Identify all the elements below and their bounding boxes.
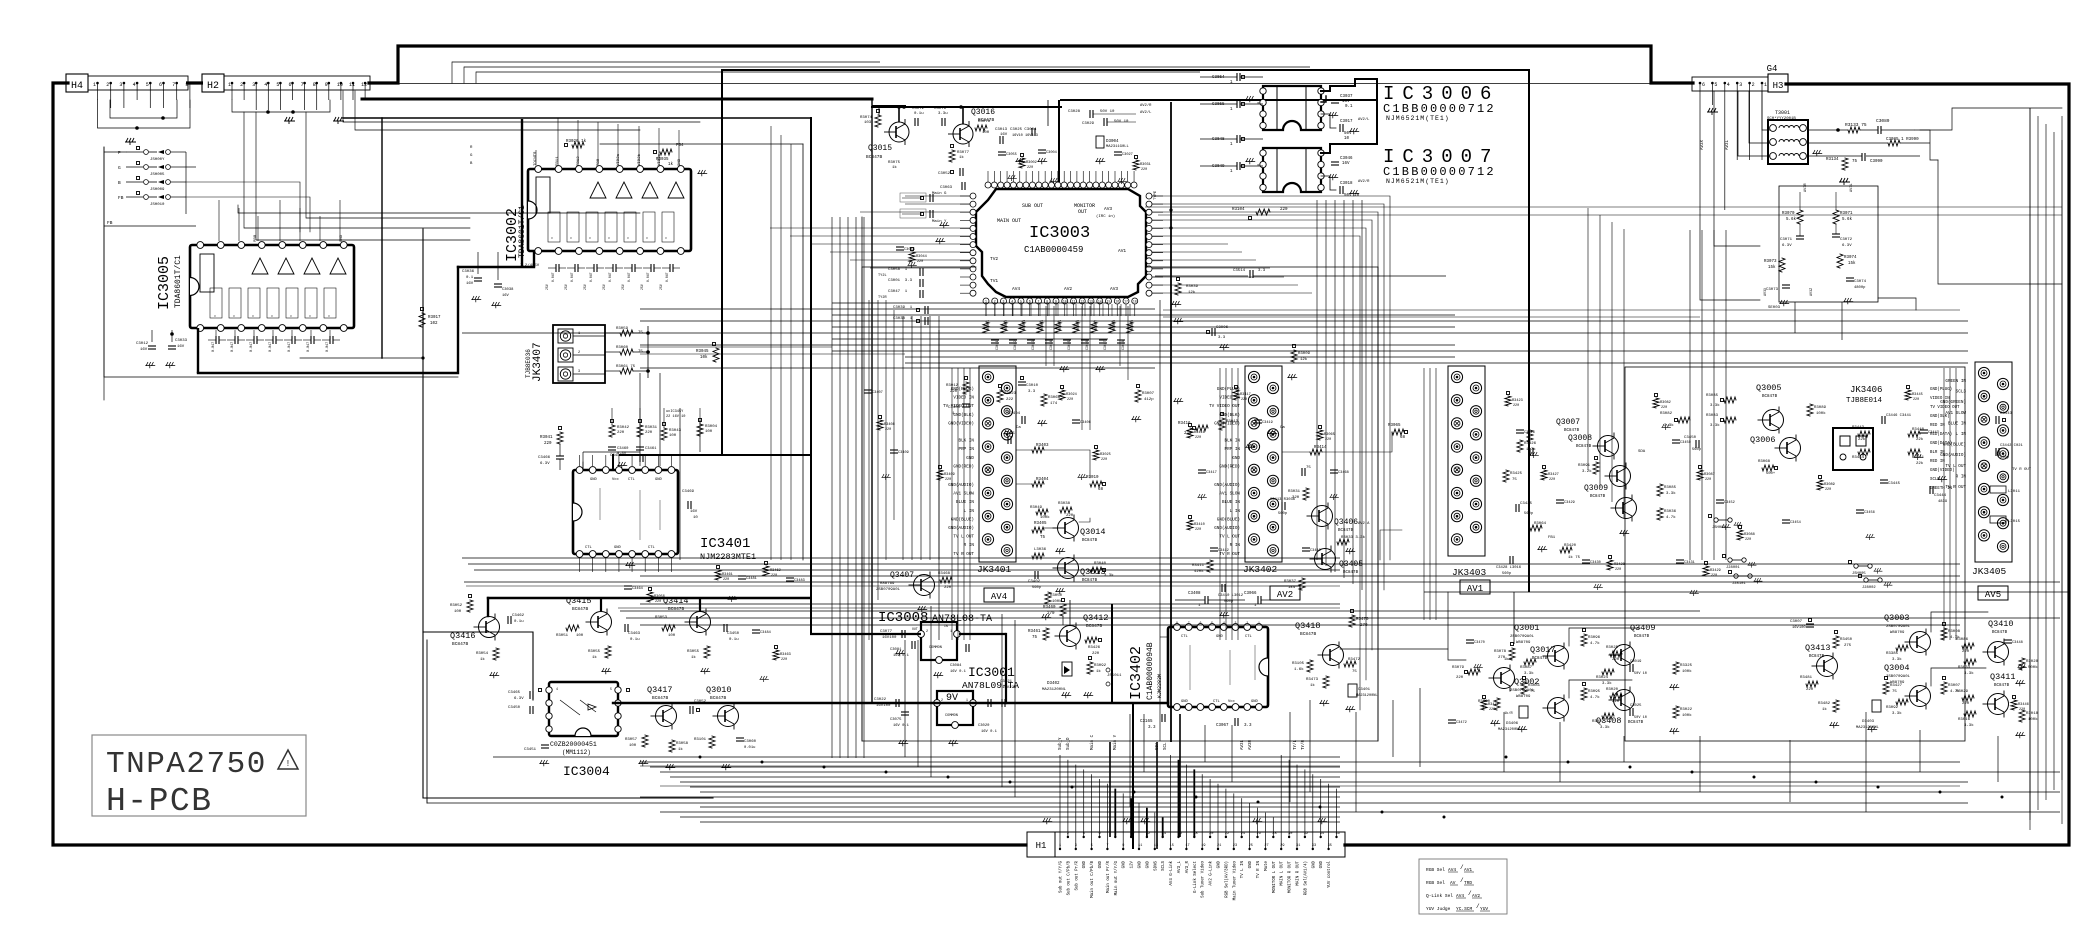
svg-text:R3429: R3429 (1710, 569, 1721, 573)
svg-text:R3089: R3089 (1824, 483, 1835, 487)
capacitor C3408 (1204, 596, 1206, 604)
svg-text:AV3_L: AV3_L (1178, 860, 1182, 873)
connector H3 (1692, 77, 1768, 91)
resistor R3071 (1833, 210, 1839, 224)
svg-text:R3133 75: R3133 75 (1845, 122, 1867, 128)
ground (881, 474, 890, 480)
wire (700, 806, 1340, 808)
svg-text:220: 220 (1092, 652, 1100, 656)
svg-text:Q3004: Q3004 (1884, 663, 1910, 673)
wire (1429, 368, 1431, 620)
wire (1931, 668, 1986, 686)
svg-text:Q3014: Q3014 (1080, 527, 1106, 537)
ground (1593, 584, 1602, 590)
svg-text:C3472: C3472 (1456, 721, 1467, 725)
svg-text:6: 6 (159, 82, 162, 88)
wire (474, 569, 1340, 571)
resistor R3065 (1392, 429, 1404, 435)
wire (1424, 591, 2069, 593)
capacitor C3081 (911, 641, 913, 649)
svg-text:C3469: C3469 (682, 490, 695, 494)
resistor R3035b (1657, 484, 1663, 496)
wire (1152, 276, 1284, 278)
svg-text:3.3: 3.3 (1148, 726, 1156, 730)
resistor R3082 (1678, 417, 1690, 423)
resistor (1133, 160, 1139, 170)
svg-text:R3025: R3025 (1606, 646, 1619, 650)
svg-text:G4: G4 (1767, 64, 1778, 74)
capacitor (1782, 519, 1790, 521)
wire (850, 259, 970, 261)
svg-text:C3408: C3408 (1188, 592, 1201, 596)
svg-text:4800p: 4800p (1854, 286, 1866, 290)
svg-text:BC847B: BC847B (1564, 429, 1580, 433)
resistor R3414 (1310, 449, 1322, 455)
resistor R3028 (2019, 658, 2025, 670)
transistor Q3410 (1988, 642, 2009, 663)
capacitor (1856, 509, 1864, 511)
wire (678, 130, 680, 165)
svg-text:R3417: R3417 (1240, 393, 1251, 397)
resistor R3990 (1888, 140, 1900, 146)
ground (1319, 700, 1329, 706)
svg-text:12k: 12k (1300, 357, 1308, 362)
svg-text:R3019: R3019 (1131, 320, 1135, 330)
svg-text:1: 1 (93, 82, 96, 88)
wire (462, 332, 1968, 334)
switch J28101 (1734, 574, 1738, 578)
wire (1528, 70, 1530, 592)
svg-text:R3078: R3078 (1494, 650, 1507, 654)
ground (935, 238, 945, 244)
svg-text:GND(SLK): GND(SLK) (1930, 414, 1950, 419)
svg-text:1k: 1k (668, 162, 674, 167)
svg-text:COMMON: COMMON (945, 714, 958, 718)
svg-text:220: 220 (1549, 478, 1555, 482)
wire (1343, 200, 1345, 578)
capacitor C3074 (1846, 277, 1854, 279)
wire (1127, 306, 1129, 380)
capacitor (612, 264, 614, 272)
svg-text:R3070: R3070 (1782, 212, 1795, 216)
capacitor (1582, 559, 1590, 561)
resistor (877, 420, 883, 430)
svg-text:TY2L: TY2L (878, 274, 887, 278)
svg-text:C3452: C3452 (1724, 501, 1735, 505)
ground (1095, 158, 1105, 164)
svg-text:TY2R: TY2R (878, 296, 887, 300)
svg-text:R3049: R3049 (1030, 506, 1043, 510)
resistor R3080 (1494, 698, 1500, 710)
svg-text:100: 100 (454, 610, 462, 614)
svg-text:R3445: R3445 (1912, 393, 1923, 397)
svg-text:JS5011: JS5011 (1107, 674, 1122, 678)
svg-text:GND: GND (1312, 860, 1316, 868)
svg-text:17: 17 (1124, 300, 1128, 304)
ground (1839, 178, 1850, 185)
svg-text:1.7k: 1.7k (1526, 447, 1536, 452)
capacitor (1072, 419, 1080, 421)
wire (1163, 309, 1960, 311)
svg-text:C3462: C3462 (512, 614, 525, 618)
wire (893, 310, 895, 520)
wire (1044, 450, 1090, 478)
wire (1225, 368, 1227, 640)
wire (1448, 592, 1466, 660)
resistor R3086c (1962, 643, 1974, 649)
ground (1055, 548, 1065, 554)
svg-text:Sub_D: Sub_D (1066, 737, 1071, 750)
resistor R3057 (642, 735, 648, 747)
svg-text:GND(RED): GND(RED) (953, 464, 974, 469)
svg-text:C1AB0000459: C1AB0000459 (1024, 245, 1083, 255)
svg-text:R3025: R3025 (1100, 453, 1111, 457)
svg-text:GND(DATA): GND(DATA) (1930, 441, 1952, 446)
capacitor C3450b (529, 706, 531, 714)
wire (493, 756, 1340, 758)
svg-text:16V100: 16V100 (1792, 626, 1806, 630)
svg-text:AV4: AV4 (991, 592, 1007, 602)
wire (582, 462, 584, 470)
capacitor C3066 (1257, 596, 1259, 604)
svg-text:1k: 1k (959, 155, 964, 160)
svg-text:W88709: W88709 (1890, 681, 1905, 685)
svg-text:AV1: AV1 (1467, 584, 1483, 594)
svg-text:4: 4 (1223, 621, 1225, 625)
svg-text:C1BB00000712: C1BB00000712 (1383, 102, 1496, 116)
capacitor C3037 (1331, 99, 1339, 101)
svg-text:AV3: AV3 (1110, 286, 1118, 292)
svg-text:C3409: C3409 (898, 451, 909, 455)
ground (1140, 818, 1150, 824)
wire (902, 197, 922, 199)
svg-text:JK3405: JK3405 (1972, 566, 2007, 577)
svg-text:JSH004: JSH004 (1712, 526, 1726, 530)
wire (721, 70, 723, 455)
wire (917, 640, 919, 767)
wire (1170, 755, 1172, 849)
svg-text:R3058: R3058 (676, 742, 689, 746)
resistor (909, 252, 915, 262)
svg-text:T3001: T3001 (1775, 110, 1790, 116)
wire (810, 118, 812, 634)
svg-text:V: V (627, 237, 630, 239)
svg-text:V: V (309, 315, 312, 317)
svg-text:!: ! (285, 759, 290, 769)
wire (660, 811, 2060, 813)
resistor R3024b (1602, 713, 1614, 719)
svg-text:R3427: R3427 (1548, 473, 1559, 477)
wire (97, 83, 99, 100)
svg-text:C3466: C3466 (538, 456, 551, 460)
wire (770, 227, 970, 229)
svg-text:D3004: D3004 (1106, 140, 1119, 144)
wire (700, 791, 2060, 793)
svg-text:BC847B: BC847B (1338, 529, 1354, 533)
wire (1799, 192, 1801, 210)
svg-text:100: 100 (629, 744, 637, 748)
resistor R3074b (1837, 254, 1843, 268)
wire (1569, 680, 1632, 698)
svg-text:R3463: R3463 (780, 653, 791, 657)
svg-text:C3054: C3054 (1212, 76, 1225, 80)
wire (475, 72, 477, 83)
capacitor C3405 (962, 403, 970, 405)
wire (381, 118, 383, 358)
svg-text:GND: GND (1139, 860, 1143, 868)
wire (198, 267, 458, 373)
svg-text:C3444: C3444 (1934, 494, 1947, 498)
resistor R3406 (1032, 553, 1044, 559)
svg-text:25V: 25V (545, 284, 549, 290)
svg-text:3: 3 (1739, 82, 1742, 88)
resistor R3055a (605, 646, 611, 658)
wire (969, 368, 971, 640)
svg-text:BC847B: BC847B (1762, 395, 1778, 399)
svg-text:JK3406: JK3406 (1850, 385, 1882, 395)
svg-text:Q3006: Q3006 (1750, 435, 1776, 445)
svg-text:75: 75 (1852, 160, 1858, 164)
capacitor C3049 (1236, 162, 1238, 170)
resistor R3095b (1581, 688, 1587, 700)
svg-text:IN: IN (944, 624, 948, 628)
wire (53, 83, 1026, 845)
svg-text:23: 23 (1233, 844, 1237, 848)
ground (1055, 588, 1065, 594)
transistor Q3017 (1494, 668, 1515, 689)
svg-text:C3076: C3076 (934, 107, 947, 111)
svg-text:R3086: R3086 (1956, 638, 1969, 642)
resistor R3085 (1724, 397, 1736, 403)
resistor R3095a (1581, 634, 1587, 646)
svg-text:TV L OUT: TV L OUT (1219, 535, 1240, 540)
transistor Q3013 (1058, 558, 1079, 579)
svg-text:R3056: R3056 (654, 595, 665, 599)
ground (1345, 548, 1355, 554)
resistor R3078 (975, 125, 987, 131)
resistor (647, 592, 653, 602)
wire (957, 368, 959, 640)
resistor R3049 (1036, 509, 1048, 515)
wire (1304, 769, 1306, 837)
wire (197, 328, 199, 373)
wire (902, 316, 904, 560)
transistor Q3406 (1312, 506, 1333, 527)
wire (658, 128, 660, 165)
svg-text:R3104: R3104 (1232, 208, 1245, 212)
svg-text:560p: 560p (1692, 448, 1702, 452)
resistor R3427 (1883, 682, 1889, 694)
ground (165, 362, 175, 368)
svg-text:6: 6 (1199, 621, 1201, 625)
svg-text:GND: GND (966, 456, 974, 461)
wire (343, 117, 811, 119)
wire (1122, 793, 1124, 849)
op-amp IC3002 (528, 169, 691, 251)
wire (904, 640, 906, 757)
svg-text:C3027: C3027 (1122, 153, 1133, 157)
svg-text:BC847B: BC847B (572, 606, 589, 612)
capacitor C3063 (961, 182, 963, 190)
wire (1102, 304, 1104, 316)
ground (1287, 374, 1297, 380)
svg-text:C3407: C3407 (872, 391, 883, 395)
svg-text:RGB Sel(AV/3RD): RGB Sel(AV/3RD) (1224, 861, 1229, 898)
transistor Q3408 (1614, 690, 1635, 711)
svg-text:BC847B: BC847B (866, 154, 883, 160)
svg-text:TV R IN: TV R IN (1257, 860, 1261, 878)
svg-text:Sub out C/Pb/B: Sub out C/Pb/B (1066, 860, 1071, 895)
capacitor (1672, 439, 1680, 441)
wire (1623, 736, 1625, 762)
svg-text:11: 11 (1138, 844, 1142, 848)
wire (1081, 306, 1083, 430)
capacitor (998, 151, 1006, 153)
svg-text:6.3V: 6.3V (1842, 244, 1852, 248)
svg-text:11: 11 (349, 82, 355, 88)
svg-text:0.047: 0.047 (326, 342, 330, 352)
svg-text:C0ZB20000451: C0ZB20000451 (550, 741, 597, 748)
svg-text:B: B (118, 180, 121, 186)
svg-text:R3105: R3105 (1292, 662, 1305, 666)
resistor R3385b (1896, 699, 1908, 705)
svg-text:AV2/R: AV2/R (1140, 103, 1152, 108)
svg-text:0.047: 0.047 (627, 272, 631, 282)
wire (2061, 140, 2063, 780)
svg-text:R3020: R3020 (1606, 688, 1619, 692)
wire (1152, 243, 1228, 245)
svg-text:220: 220 (1195, 436, 1201, 440)
svg-text:CTL: CTL (585, 546, 593, 550)
resistor R3038 (1060, 507, 1072, 513)
svg-text:TV2: TV2 (990, 256, 998, 262)
resistor R3468 (940, 577, 952, 583)
capacitor C3067 (1234, 718, 1236, 726)
svg-text:34: 34 (1320, 832, 1324, 836)
wire (1003, 304, 1005, 316)
svg-text:32: 32 (1304, 832, 1308, 836)
wire (640, 575, 1960, 577)
wire (963, 368, 965, 640)
wire (1392, 700, 1394, 757)
svg-text:R3409: R3409 (944, 473, 955, 477)
wire (1841, 302, 1843, 340)
svg-text:8: 8 (1176, 621, 1178, 625)
svg-text:0.047: 0.047 (646, 272, 650, 282)
svg-text:220: 220 (885, 428, 891, 432)
resistor (1001, 322, 1007, 333)
wire (862, 267, 1378, 741)
wire (638, 126, 640, 165)
ground (1884, 582, 1893, 588)
svg-text:IC3003: IC3003 (1029, 224, 1090, 243)
svg-text:16V: 16V (466, 282, 474, 286)
resistor (1073, 322, 1079, 333)
svg-text:IC3004: IC3004 (563, 764, 610, 779)
svg-text:C3063: C3063 (940, 186, 953, 190)
wire (877, 300, 879, 600)
resistor R3035 (660, 149, 672, 155)
svg-text:C3033: C3033 (175, 339, 188, 343)
svg-text:BC847B: BC847B (1343, 571, 1359, 575)
wire (620, 610, 1700, 612)
transistor Q3008 (1610, 466, 1631, 487)
wire (790, 235, 970, 237)
ground (601, 668, 611, 674)
svg-text:3-3k: 3-3k (1602, 681, 1612, 686)
wire (832, 302, 1108, 304)
connector H2 (202, 74, 224, 92)
svg-text:PBO: PBO (597, 158, 601, 166)
svg-text:AV2/R: AV2/R (1358, 179, 1370, 184)
capacitor C3465 (529, 691, 531, 699)
wire (597, 122, 599, 165)
svg-text:BLR IN: BLR IN (1930, 451, 1945, 455)
svg-text:R3042: R3042 (617, 426, 630, 430)
resistor (1607, 560, 1613, 570)
wire (1749, 91, 1770, 143)
wire (639, 373, 641, 466)
wire (1084, 304, 1086, 316)
svg-text:AV3_R: AV3_R (1186, 860, 1190, 873)
wire (618, 607, 1340, 609)
resistor R3461 (1043, 628, 1049, 640)
svg-text:R3092: R3092 (1886, 706, 1899, 710)
wire (339, 200, 341, 241)
switch JSH004 (1714, 518, 1718, 522)
wire (860, 211, 970, 213)
node AV5 (1978, 586, 2008, 600)
resistor (1541, 470, 1547, 480)
svg-text:R3029: R3029 (1956, 690, 1969, 694)
resistor R3492 (1087, 662, 1093, 674)
wire (355, 91, 640, 130)
svg-text:R3012: R3012 (1005, 320, 1009, 330)
svg-text:D3406: D3406 (1506, 722, 1519, 726)
ground (1721, 524, 1730, 530)
capacitor C3451 (541, 744, 549, 746)
svg-text:Q3009: Q3009 (1584, 484, 1608, 493)
wire (1915, 130, 1938, 160)
wire (1130, 798, 1132, 837)
wire (559, 444, 561, 456)
wire (659, 373, 661, 466)
svg-text:R3404: R3404 (1036, 478, 1049, 482)
diode D3004 (1096, 136, 1104, 148)
transistor Q3003 (1910, 632, 1931, 653)
resistor R3472 (1344, 661, 1356, 667)
resistor R3133 (1848, 127, 1860, 133)
svg-text:P: P (118, 150, 121, 156)
svg-text:28: 28 (1272, 832, 1276, 836)
svg-text:16V: 16V (690, 510, 698, 514)
svg-text:R IN: R IN (1230, 543, 1241, 548)
wire (1919, 730, 1921, 772)
svg-text:TV1: TV1 (990, 278, 998, 284)
wire (398, 83, 1651, 85)
wire (329, 330, 331, 336)
resistor (1127, 322, 1133, 333)
svg-text:H1: H1 (1036, 841, 1047, 851)
svg-text:AV2: AV2 (1277, 590, 1293, 600)
svg-text:C3028: C3028 (1068, 110, 1081, 114)
resistor R3068b (1041, 394, 1047, 406)
capacitor C3028 (1089, 110, 1091, 118)
resistor R3068 (1762, 465, 1774, 471)
wire (873, 105, 905, 107)
ground (1007, 175, 1016, 181)
svg-text:CTL: CTL (648, 546, 656, 550)
